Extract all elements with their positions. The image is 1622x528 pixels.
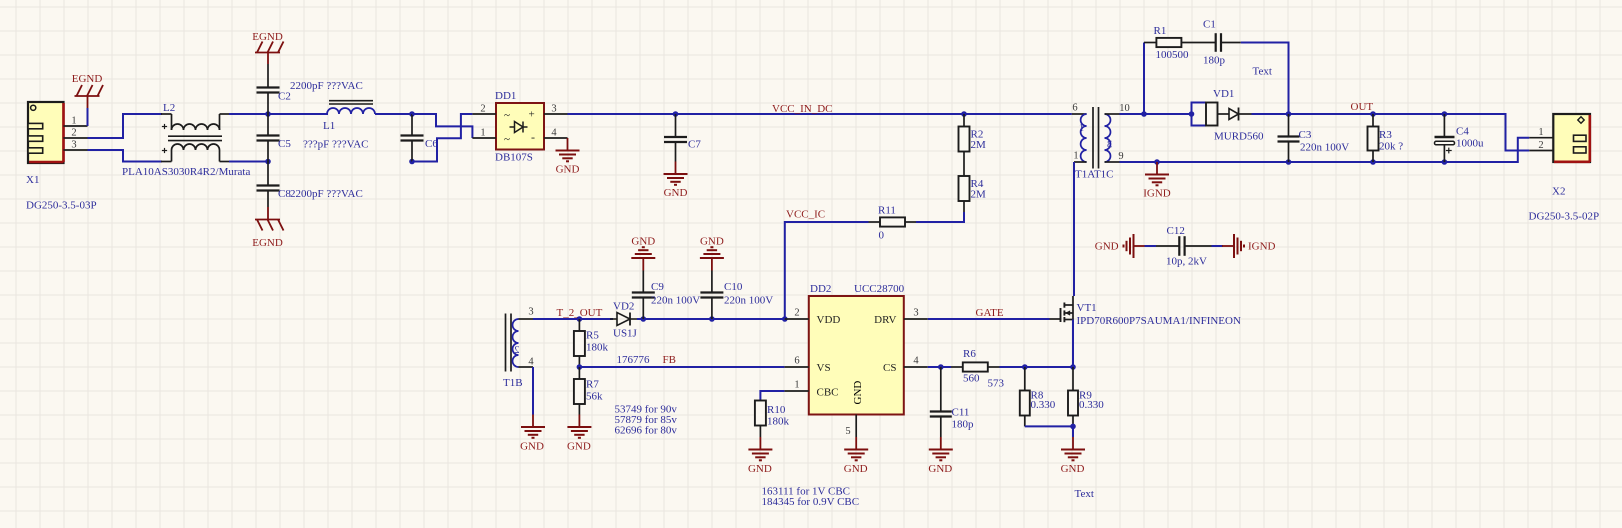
svg-text:US1J: US1J [613, 328, 638, 340]
svg-text:3: 3 [1107, 140, 1112, 151]
wire FB rail [579, 366, 784, 368]
DD1 pin 2 [472, 113, 496, 115]
svg-text:R3: R3 [1379, 129, 1392, 141]
svg-text:0.330: 0.330 [1031, 399, 1056, 411]
wire L2 to filter node [229, 113, 328, 115]
wire CBC to R10 [760, 391, 784, 401]
svg-text:C2: C2 [278, 91, 291, 103]
svg-text:L2: L2 [163, 102, 175, 114]
resistor R7 [578, 367, 580, 379]
capacitor C5 [267, 114, 269, 136]
svg-text:176776: 176776 [617, 354, 651, 366]
capacitor C9 [642, 298, 644, 320]
svg-text:X1: X1 [26, 174, 39, 186]
node C10 [709, 316, 715, 322]
svg-text:1: 1 [1073, 151, 1078, 162]
DD1 pin 1 [472, 137, 496, 139]
svg-text:2200pF ???VAC: 2200pF ???VAC [290, 80, 363, 92]
X2 pin 1 [1529, 137, 1553, 139]
node bottom rail / C5 [265, 159, 271, 165]
svg-text:5: 5 [845, 426, 850, 437]
svg-text:C7: C7 [688, 139, 701, 151]
svg-text:3: 3 [913, 308, 918, 319]
svg-text:1: 1 [794, 380, 799, 391]
transformer T1C secondary winding [1105, 114, 1111, 162]
svg-text:R7: R7 [586, 379, 599, 391]
svg-text:62696 for 80v: 62696 for 80v [615, 425, 678, 437]
svg-text:10p, 2kV: 10p, 2kV [1166, 256, 1207, 268]
wire L1 to C6 [375, 113, 412, 115]
power port GND below C7 [675, 162, 677, 175]
svg-text:R10: R10 [767, 404, 786, 416]
svg-text:180p: 180p [952, 419, 975, 431]
svg-text:C3: C3 [1299, 129, 1312, 141]
svg-text:T1AT1C: T1AT1C [1075, 169, 1114, 181]
capacitor C7 [673, 111, 679, 117]
svg-text:GND: GND [748, 463, 772, 475]
power port GND below R10 [759, 437, 761, 450]
svg-text:9: 9 [1118, 151, 1123, 162]
wire C6 bottom to DD1 pin2 (crossover) [412, 114, 472, 162]
mosfet VT1 [1050, 318, 1061, 320]
svg-text:180p: 180p [1203, 55, 1226, 67]
svg-text:2200pF ???VAC: 2200pF ???VAC [290, 188, 363, 200]
wire snubber riser [1143, 43, 1145, 115]
transformer T1B aux winding [505, 314, 507, 372]
resistor R4 [963, 152, 965, 177]
X2 pin 2 [1529, 150, 1553, 152]
svg-text:4: 4 [551, 128, 557, 139]
svg-text:EGND: EGND [252, 31, 283, 43]
svg-text:C10: C10 [724, 281, 743, 293]
power port GND at DD1 pin4 [567, 138, 569, 151]
svg-text:R5: R5 [586, 330, 599, 342]
wire T_2_OUT rail [533, 318, 613, 320]
wire EGND to pin1 [87, 108, 89, 126]
svg-text:2: 2 [794, 308, 799, 319]
svg-text:VD2: VD2 [613, 301, 634, 313]
svg-text:3: 3 [551, 104, 556, 115]
inductor L1 [329, 100, 373, 102]
svg-text:1: 1 [1538, 127, 1543, 138]
svg-text:CBC: CBC [817, 387, 839, 399]
svg-text:R1: R1 [1154, 25, 1167, 37]
svg-text:Text: Text [1253, 66, 1272, 78]
resistor R3 [1370, 111, 1376, 117]
svg-text:T1B: T1B [503, 377, 523, 389]
connector X1 [28, 102, 64, 163]
svg-text:DG250-3.5-03P: DG250-3.5-03P [26, 200, 97, 212]
transformer T1 core [1092, 107, 1094, 169]
controller DD2 UCC28700 [809, 296, 904, 415]
power port GND below T1B [532, 415, 534, 428]
power port GND below C11 [940, 437, 942, 450]
svg-text:2M: 2M [971, 189, 987, 201]
capacitor C6 [409, 111, 415, 117]
power port EGND below C8 [267, 207, 269, 220]
svg-text:100500: 100500 [1156, 49, 1190, 61]
node R8 top [1022, 364, 1028, 370]
capacitor C11 [940, 367, 942, 412]
svg-text:0: 0 [879, 230, 885, 242]
svg-text:C12: C12 [1167, 225, 1185, 237]
node C11 [938, 364, 944, 370]
svg-text:1: 1 [1079, 123, 1084, 134]
svg-text:C11: C11 [952, 407, 970, 419]
svg-text:+: + [529, 109, 535, 121]
svg-text:C9: C9 [651, 281, 664, 293]
capacitor C8 [267, 162, 269, 186]
svg-text:GATE: GATE [976, 307, 1004, 319]
svg-text:VCC_IC: VCC_IC [786, 209, 825, 221]
svg-text:EGND: EGND [252, 237, 283, 249]
svg-text:220n 100V: 220n 100V [1300, 142, 1349, 154]
svg-text:573: 573 [988, 378, 1005, 390]
DD2 pin 1 CBC [784, 390, 808, 392]
svg-text:DD1: DD1 [495, 90, 516, 102]
resistor R6 [951, 366, 963, 368]
resistor R5 [578, 319, 580, 331]
svg-text:2: 2 [71, 128, 76, 139]
DD2 pin 6 VS [784, 366, 808, 368]
diode VD1 MURD560 [1189, 111, 1195, 117]
resistor R1 [1144, 42, 1156, 44]
svg-text:6: 6 [794, 356, 799, 367]
capacitor C3 [1286, 111, 1292, 117]
svg-text:180k: 180k [767, 416, 790, 428]
wire CS to R6 [928, 366, 951, 368]
DD1 pin 3 [544, 113, 568, 115]
svg-text:CS: CS [883, 362, 896, 374]
wire output + rail [1252, 114, 1530, 151]
node R2 top [961, 111, 967, 117]
svg-text:VS: VS [817, 362, 831, 374]
svg-text:3: 3 [71, 140, 76, 151]
svg-text:DRV: DRV [874, 314, 896, 326]
wire T1 pin10 to VD1 [1120, 113, 1192, 115]
power port IGND [1154, 159, 1160, 165]
transformer T1A primary winding [1072, 113, 1087, 115]
svg-text:DG250-3.5-02P: DG250-3.5-02P [1529, 211, 1600, 223]
svg-text:2M: 2M [971, 139, 987, 151]
svg-text:220n 100V: 220n 100V [651, 295, 700, 307]
svg-text:???pF ???VAC: ???pF ???VAC [303, 139, 368, 151]
svg-text:GND: GND [664, 187, 688, 199]
wire R8 R9 bottoms [1025, 425, 1073, 427]
X1 pin 1 [64, 125, 88, 127]
wire IGND rail / output - rail [1120, 138, 1530, 162]
diode VD2 US1J [610, 318, 617, 320]
svg-text:6: 6 [1072, 103, 1077, 114]
node R5 top [577, 316, 583, 322]
svg-text:~: ~ [504, 134, 510, 146]
wire VT1 source down [1072, 320, 1074, 368]
svg-text:C5: C5 [278, 138, 291, 150]
svg-text:DD2: DD2 [810, 283, 831, 295]
connector X2 [1553, 114, 1590, 162]
power port GND above C9 [642, 258, 644, 271]
svg-text:560: 560 [963, 373, 980, 385]
node snubber riser [1141, 111, 1147, 117]
wire R6 to R8 R9 VT1 [1000, 366, 1074, 368]
DD2 pin 5 GND [855, 415, 857, 438]
svg-text:184345 for 0.9V CBC: 184345 for 0.9V CBC [762, 496, 860, 508]
wire VD2 to DD2 VDD [637, 318, 785, 320]
node R9 bottom [1070, 424, 1076, 430]
svg-text:2: 2 [1538, 140, 1543, 151]
svg-text:20k ?: 20k ? [1379, 141, 1403, 153]
node VDD [782, 316, 788, 322]
svg-text:EGND: EGND [72, 73, 103, 85]
svg-text:GND: GND [520, 441, 544, 453]
DD2 pin 3 DRV [904, 318, 928, 320]
wire T1 pin1 to VT1 drain [1073, 162, 1075, 296]
X1 pin 2 [64, 137, 88, 139]
common-mode choke L2 [161, 113, 172, 115]
svg-text:10: 10 [1119, 103, 1130, 114]
svg-text:FB: FB [663, 354, 676, 366]
svg-text:1000u: 1000u [1456, 138, 1484, 150]
svg-text:IPD70R600P7SAUMA1/INFINEON: IPD70R600P7SAUMA1/INFINEON [1077, 315, 1241, 327]
svg-text:180k: 180k [586, 342, 609, 354]
wire R4 to R11 [916, 212, 964, 222]
wire VCC_IN_DC rail [568, 113, 1072, 115]
svg-text:Text: Text [1075, 488, 1094, 500]
svg-text:2: 2 [480, 104, 485, 115]
svg-text:GND: GND [556, 164, 580, 176]
resistor R10 [755, 401, 766, 426]
svg-text:0.330: 0.330 [1079, 399, 1104, 411]
power port GND below R9 [1072, 426, 1074, 437]
svg-text:GND: GND [700, 236, 724, 248]
capacitor C4 polarized [1442, 111, 1448, 117]
svg-text:GND: GND [852, 381, 864, 405]
svg-text:IGND: IGND [1143, 188, 1171, 200]
node C9 [641, 316, 647, 322]
svg-text:GND: GND [1095, 241, 1119, 253]
svg-text:C4: C4 [1456, 126, 1469, 138]
svg-text:4: 4 [528, 357, 534, 368]
resistor R9 [1072, 367, 1074, 391]
svg-text:GND: GND [567, 441, 591, 453]
svg-text:DB107S: DB107S [495, 152, 533, 164]
wire R11 to VCC_IC / DD2 VDD [785, 222, 869, 319]
wire GATE rail [928, 318, 1050, 320]
svg-text:X2: X2 [1552, 186, 1565, 198]
DD1 pin 4 [544, 137, 568, 139]
svg-text:GND: GND [844, 463, 868, 475]
node top rail / C2 [265, 111, 271, 117]
power port EGND above C2 [255, 52, 280, 54]
resistor R8 [1024, 367, 1026, 391]
svg-text:R6: R6 [963, 348, 976, 360]
svg-text:GND: GND [1061, 463, 1085, 475]
X1 pin 3 [64, 149, 88, 151]
node FB [577, 364, 583, 370]
wire X1 pin3 to L2 bottom [88, 150, 163, 162]
svg-text:220n 100V: 220n 100V [724, 295, 773, 307]
power port GND below R7 [578, 415, 580, 428]
svg-text:PLA10AS3030R4R2/Murata: PLA10AS3030R4R2/Murata [122, 166, 250, 178]
svg-text:3: 3 [528, 307, 533, 318]
svg-text:MURD560: MURD560 [1214, 131, 1264, 143]
wire C1 to cathode rail [1241, 43, 1289, 115]
svg-text:4: 4 [913, 356, 919, 367]
wire X1 pin2 to L2 top [88, 114, 163, 138]
svg-text:L1: L1 [323, 120, 335, 132]
power port EGND at X1 pin1 [75, 95, 100, 97]
svg-text:GND: GND [631, 236, 655, 248]
DD2 pin 4 CS [904, 366, 928, 368]
DD1 internal diode symbol [510, 126, 515, 128]
wire C6 top to DD1 pin1 (crossover) [412, 114, 472, 138]
capacitor C10 [711, 298, 713, 320]
svg-text:OUT: OUT [1351, 101, 1374, 113]
svg-text:UCC28700: UCC28700 [854, 283, 905, 295]
svg-text:R11: R11 [878, 205, 896, 217]
svg-text:2: 2 [514, 345, 519, 356]
svg-text:VCC_IN_DC: VCC_IN_DC [772, 103, 833, 115]
svg-text:1: 1 [71, 116, 76, 127]
svg-text:-: - [531, 130, 535, 144]
capacitor C1 [1215, 33, 1217, 52]
resistor R2 [963, 114, 965, 127]
power port GND above C10 [711, 258, 713, 271]
svg-text:1: 1 [480, 128, 485, 139]
resistor R11 [905, 221, 916, 223]
DD2 pin 2 VDD [785, 318, 809, 320]
svg-text:C1: C1 [1203, 19, 1216, 31]
svg-text:~: ~ [504, 110, 510, 122]
svg-text:GND: GND [928, 463, 952, 475]
power port GND below DD2 pin5 [855, 437, 857, 450]
capacitor C2 [267, 64, 269, 88]
svg-text:VDD: VDD [817, 314, 841, 326]
svg-text:IGND: IGND [1248, 241, 1276, 253]
wire T1B pin4 to GND [532, 367, 534, 415]
svg-text:VT1: VT1 [1077, 302, 1097, 314]
svg-text:56k: 56k [586, 391, 603, 403]
node VT1 source / R9 [1070, 364, 1076, 370]
bridge rectifier DD1 [496, 103, 544, 150]
svg-text:VD1: VD1 [1213, 88, 1234, 100]
